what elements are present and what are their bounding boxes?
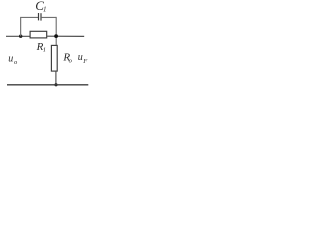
node B (right junction dot)	[54, 34, 58, 38]
node A (left junction dot)	[19, 35, 22, 38]
wire: top rail left segment to capacitor C1 left plate	[20, 16, 38, 18]
wire: middle-right horizontal from R1 to output terminal	[47, 35, 84, 37]
resistor R1 (horizontal box)	[30, 31, 47, 38]
resistor Ro (vertical box)	[51, 45, 57, 71]
svg-text:F: F	[82, 58, 88, 65]
svg-text:1: 1	[43, 6, 47, 14]
wire: top rail right segment from C1 right plate to corner	[41, 16, 56, 18]
wire: left vertical riser from node A up to top rail	[20, 17, 22, 36]
wire: right vertical from top corner down to node B and Ro	[55, 17, 57, 46]
wire: bottom ground rail	[7, 84, 88, 86]
wire: vertical from Ro bottom to ground rail	[55, 71, 57, 85]
svg-text:o: o	[69, 58, 73, 65]
svg-text:u: u	[78, 52, 83, 63]
svg-text:o: o	[14, 59, 18, 66]
wire: middle-left horizontal from input terminal to R1	[6, 35, 31, 37]
capacitor C1 (two parallel plates)	[38, 13, 40, 20]
node C (bottom junction dot)	[54, 83, 57, 86]
svg-text:u: u	[8, 54, 13, 65]
svg-text:1: 1	[43, 47, 46, 54]
